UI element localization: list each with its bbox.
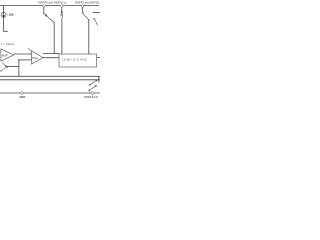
svg-text:←10µA: ←10µA [6, 13, 15, 17]
arrow top rail right [97, 5, 99, 6]
svg-text:PGA: PGA [32, 56, 38, 60]
wire right feeder arrow line [93, 11, 100, 13]
wire BUF output L1 [13, 53, 31, 55]
wire current source drop [4, 6, 8, 32]
wire PGA output [43, 57, 59, 59]
op-amp BUF [1, 49, 14, 61]
switch S5 bottom right upper blade [89, 80, 98, 86]
terminal REFP0 [43, 5, 46, 8]
op-amp PGA [32, 51, 43, 64]
svg-text:VBIAS: VBIAS [19, 95, 25, 99]
switch S2 [61, 12, 63, 19]
wire PGA corner tick [28, 48, 31, 51]
wire switch S1 drop [44, 7, 46, 14]
terminal PWDN [91, 92, 94, 95]
switch S1 [45, 15, 55, 23]
wire bypass line into box [43, 53, 59, 55]
wire rail R1 [0, 75, 100, 77]
wire bottom-right drop [98, 76, 100, 82]
svg-text:REFP0 and REFN0 or: REFP0 and REFN0 or [38, 1, 66, 5]
wire S1 to box [54, 23, 59, 54]
switch S4 BUF feedback [0, 63, 7, 72]
svg-text:BUF: BUF [2, 53, 8, 57]
arrow right feeder left [92, 12, 95, 13]
switch S3 [82, 12, 98, 25]
wire S2 to box [61, 19, 63, 54]
wire top rail [0, 5, 97, 7]
terminal REFP1 [81, 5, 84, 8]
svg-text:PWDN(1:0): PWDN(1:0) [84, 95, 98, 99]
switch S6 bottom right lower blade [88, 85, 97, 91]
svg-text:f = f Mod: f = f Mod [1, 42, 14, 46]
svg-text:REFP1 and REFN1: REFP1 and REFN1 [75, 1, 100, 5]
wire L2 to PGA [19, 59, 32, 61]
terminal VBIAS [21, 92, 24, 95]
wire V1 junction down [18, 60, 20, 76]
wire switch S3 drop [82, 7, 84, 12]
wire BUF feedback [7, 65, 19, 67]
wire S3 to box [88, 21, 90, 54]
wire ADC output stub [97, 57, 100, 59]
ADC block U1 [59, 54, 97, 67]
wire rail R3 [0, 92, 100, 94]
svg-text:16-Bit Δ-Σ ADC: 16-Bit Δ-Σ ADC [62, 58, 87, 62]
node junction L2 [18, 59, 20, 61]
terminal REFN0 [61, 5, 64, 8]
wire rail R2 [0, 79, 100, 81]
wire switch S2 drop [61, 7, 63, 12]
current source I1 [1, 12, 6, 17]
